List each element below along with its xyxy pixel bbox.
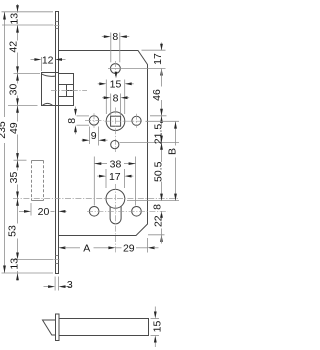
dimension A (backset) xyxy=(58,243,115,255)
chain arrow at faceplate top (outside, down) xyxy=(16,5,19,12)
svg-text:35: 35 xyxy=(8,172,20,184)
dimension 22 (flank holes to case bottom) xyxy=(148,215,165,243)
dimension 8 (follower square) xyxy=(102,93,129,116)
right flank fixing hole xyxy=(132,207,142,217)
left chain dimension line xyxy=(17,4,19,281)
svg-text:17: 17 xyxy=(109,171,121,183)
svg-text:42: 42 xyxy=(8,41,20,53)
extension line 46/21.5 junction xyxy=(150,115,167,117)
dimension 17 right top (case top to hole1) xyxy=(142,43,166,87)
latch axis centerline xyxy=(51,89,87,91)
extension line latch top xyxy=(14,72,41,74)
svg-text:235: 235 xyxy=(0,121,8,139)
faceplate (front view, edge-on strip) xyxy=(56,12,59,274)
svg-text:53: 53 xyxy=(6,225,18,237)
svg-text:20: 20 xyxy=(38,206,50,218)
svg-text:9: 9 xyxy=(91,130,97,142)
svg-text:15: 15 xyxy=(152,321,164,333)
extension line faceplate top xyxy=(2,11,54,13)
arrow on center axis above follower xyxy=(115,72,118,79)
dimension 15 (follower dia) xyxy=(98,79,134,114)
svg-text:8: 8 xyxy=(66,118,78,124)
chain arrows at latch top xyxy=(16,66,19,73)
cylinder horizontal centerline xyxy=(13,198,179,200)
svg-text:A: A xyxy=(83,243,90,255)
svg-text:50.5: 50.5 xyxy=(153,161,165,182)
svg-text:49: 49 xyxy=(8,122,20,134)
svg-text:B: B xyxy=(167,148,179,155)
svg-text:38: 38 xyxy=(110,158,122,170)
left flank fixing hole xyxy=(89,207,99,217)
chain arrow at screw2 (down) xyxy=(16,253,19,260)
svg-text:13: 13 xyxy=(9,258,21,270)
dimension 46 (hole1 to follower junction) xyxy=(151,89,163,116)
dimension 38 (flank hole centers) xyxy=(94,157,135,206)
extension cylinder centerline to right column xyxy=(127,200,179,202)
extension line 49/35 junction xyxy=(14,159,27,161)
side view latch wedge xyxy=(43,320,56,335)
screw hole top on faceplate xyxy=(54,22,59,29)
extension line faceplate bottom xyxy=(2,272,54,274)
small hole right of follower xyxy=(132,114,141,128)
dimension 29 (cylinder to case edge) xyxy=(115,238,158,255)
chain arrows at cylinder centerline xyxy=(16,192,19,199)
handle follower (circle with 8mm square) xyxy=(105,108,144,153)
chain arrow at screw1 (up) xyxy=(16,25,19,32)
dimension 12 (latch protrusion) xyxy=(31,54,66,71)
svg-text:12: 12 xyxy=(42,54,54,66)
euro profile cylinder cutout xyxy=(106,189,125,223)
dimension B (follower to cylinder) xyxy=(167,122,179,201)
dimension 17 (cylinder width) xyxy=(97,169,133,188)
chain arrows at 160 junction xyxy=(16,153,19,160)
latch bolt tail inside case xyxy=(59,74,74,106)
deadbolt thrown position (hidden/dashed) xyxy=(32,161,44,201)
dimension 20 (deadbolt throw) xyxy=(19,203,67,218)
extension line top screw center xyxy=(2,24,54,26)
oblong hole 9x8 xyxy=(85,113,104,128)
extension line latch bottom xyxy=(8,105,38,107)
screw hole bottom on faceplate xyxy=(54,256,59,264)
svg-text:22: 22 xyxy=(153,215,165,227)
dimension 50.5 xyxy=(153,143,165,201)
svg-text:8: 8 xyxy=(113,93,119,105)
latch bolt head (protruding) xyxy=(42,73,59,106)
extension line follower center to B line xyxy=(146,120,180,122)
svg-text:46: 46 xyxy=(151,89,163,101)
extension line through small hole to right column (21.5/50.5 junction) xyxy=(120,142,180,144)
extension line bottom screw center xyxy=(14,259,54,261)
chain arrows at latch bottom xyxy=(16,98,19,105)
small hole below follower xyxy=(111,141,119,149)
svg-text:8: 8 xyxy=(112,31,118,43)
chain arrow below faceplate bottom (up) xyxy=(16,273,19,280)
svg-text:3: 3 xyxy=(67,279,73,291)
hole1 horizontal centerline / extension to right dim column xyxy=(108,68,166,70)
dimension 8 vertical (oblong hole height) xyxy=(66,107,89,135)
overall dimension 235 xyxy=(0,12,8,273)
dimension 21.5 xyxy=(153,116,165,162)
side view faceplate slab xyxy=(56,314,60,341)
side view case bar xyxy=(59,319,149,336)
dimension 3 (faceplate thickness) xyxy=(44,277,73,292)
svg-text:17: 17 xyxy=(152,53,164,65)
svg-text:21.5: 21.5 xyxy=(153,124,165,145)
svg-text:15: 15 xyxy=(110,79,122,91)
flank holes centerline xyxy=(87,210,168,212)
dimension 15 (side view height) xyxy=(151,307,164,348)
dimension 8 (top hole dia) xyxy=(102,31,130,62)
svg-text:8: 8 xyxy=(151,204,163,210)
lock case body with chamfered right corners xyxy=(59,51,148,236)
svg-text:13: 13 xyxy=(9,13,21,25)
svg-text:30: 30 xyxy=(8,84,20,96)
dimension 8 (cylinder to flank holes) xyxy=(151,204,163,218)
top hole 8 dia xyxy=(111,61,121,76)
cylinder vertical centerline xyxy=(114,184,116,253)
dimension 9 (oblong hole width) xyxy=(82,127,108,146)
svg-text:29: 29 xyxy=(123,243,135,255)
